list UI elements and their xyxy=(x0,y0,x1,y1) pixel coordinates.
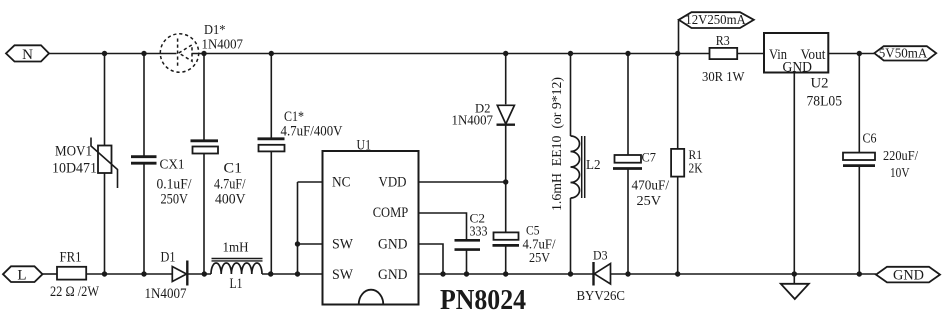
node GND output hexagon xyxy=(876,267,940,284)
svg-text:N: N xyxy=(22,47,33,63)
op-amp U1 PN8024 controller box xyxy=(323,138,419,305)
svg-text:GND: GND xyxy=(893,268,924,284)
svg-text:GND: GND xyxy=(378,267,408,283)
wire U2 GND down xyxy=(793,73,795,275)
svg-text:U1: U1 xyxy=(357,138,372,154)
wire bottom rail L to FR1 xyxy=(43,273,58,275)
svg-text:FR1: FR1 xyxy=(60,250,82,266)
svg-text:4.7uF/400V: 4.7uF/400V xyxy=(281,124,343,140)
wire bottom rail D1 to L1 xyxy=(187,273,211,275)
svg-text:NC: NC xyxy=(332,175,351,191)
svg-text:1N4007: 1N4007 xyxy=(452,112,494,127)
svg-text:1N4007: 1N4007 xyxy=(202,37,244,52)
wire bottom rail D3 to GND hexagon xyxy=(611,273,877,275)
capacitor CX1 xyxy=(131,54,192,275)
svg-text:VDD: VDD xyxy=(379,175,407,191)
svg-text:MOV1: MOV1 xyxy=(55,144,92,160)
svg-text:10D471: 10D471 xyxy=(52,161,97,177)
wire top rail left segment xyxy=(49,53,177,55)
node L input hexagon xyxy=(3,266,43,283)
ground symbol xyxy=(781,274,809,299)
svg-text:L2: L2 xyxy=(586,157,601,172)
wire SW pin stub xyxy=(298,243,323,245)
diode D2 xyxy=(452,54,516,233)
node 5V50mA output hexagon xyxy=(874,46,936,61)
inductor L2 with EE10 core xyxy=(550,54,601,275)
inductor L1 xyxy=(211,241,263,293)
node N input hexagon xyxy=(6,45,49,63)
capacitor C2 xyxy=(455,211,488,275)
wire bottom rail FR1 to D1 xyxy=(86,273,172,275)
svg-text:R3: R3 xyxy=(716,34,730,49)
regulator U2 78L05 box xyxy=(764,33,842,110)
wire NC pin stub xyxy=(298,181,323,183)
svg-text:400V: 400V xyxy=(215,192,246,208)
wire top rail middle segment xyxy=(192,53,710,55)
varistor MOV1 xyxy=(52,54,118,275)
wire top rail U2 output segment xyxy=(828,53,874,55)
svg-text:2K: 2K xyxy=(689,161,703,176)
svg-text:1.6mH EE10 (or 9*12): 1.6mH EE10 (or 9*12) xyxy=(550,77,565,211)
wire VDD pin to D2 node xyxy=(419,181,506,183)
node 12V250mA output hexagon xyxy=(679,12,754,53)
junction dots bottom rail xyxy=(102,271,862,276)
svg-text:C7: C7 xyxy=(642,150,657,165)
svg-text:GND: GND xyxy=(378,237,408,253)
junction dot SW tie xyxy=(295,241,300,246)
capacitor C6 electrolytic xyxy=(843,54,918,275)
svg-text:SW: SW xyxy=(332,237,354,253)
capacitor C1* electrolytic xyxy=(258,54,343,275)
svg-text:78L05: 78L05 xyxy=(807,94,843,110)
svg-text:PN8024: PN8024 xyxy=(440,285,526,316)
wire U1 left tie vertical (NC-SW-SW) xyxy=(297,182,299,274)
wire bottom rail U1 to D3 xyxy=(419,273,594,275)
svg-text:5V50mA: 5V50mA xyxy=(879,46,928,61)
svg-text:1N4007: 1N4007 xyxy=(145,286,187,302)
svg-text:C1: C1 xyxy=(224,161,243,177)
resistor R3 xyxy=(702,34,745,85)
wire top rail right of R3 xyxy=(737,53,764,55)
svg-text:220uF/: 220uF/ xyxy=(883,148,918,163)
svg-text:D3: D3 xyxy=(593,248,608,263)
svg-text:U2: U2 xyxy=(811,76,829,92)
resistor FR1 xyxy=(50,250,100,301)
svg-text:L1: L1 xyxy=(230,276,243,292)
capacitor C1 electrolytic xyxy=(191,54,247,275)
svg-text:470uF/: 470uF/ xyxy=(632,178,670,193)
svg-text:25V: 25V xyxy=(529,250,550,265)
capacitor C5 electrolytic xyxy=(493,223,556,275)
svg-text:30R 1W: 30R 1W xyxy=(702,70,745,85)
svg-text:25V: 25V xyxy=(637,193,662,208)
svg-text:C5: C5 xyxy=(526,223,540,238)
svg-text:10V: 10V xyxy=(890,165,910,180)
svg-text:333: 333 xyxy=(470,224,488,239)
svg-text:CX1: CX1 xyxy=(160,157,185,172)
svg-text:12V250mA: 12V250mA xyxy=(685,12,746,27)
svg-text:0.1uF/: 0.1uF/ xyxy=(157,177,193,193)
resistor R1 xyxy=(671,54,703,275)
capacitor C7 electrolytic xyxy=(613,54,669,275)
wire bottom rail L1 to U1 xyxy=(262,273,323,275)
svg-text:D1: D1 xyxy=(161,250,176,266)
svg-text:250V: 250V xyxy=(161,192,189,208)
diode D3 xyxy=(577,248,626,304)
svg-text:4.7uF/: 4.7uF/ xyxy=(214,177,246,193)
svg-text:SW: SW xyxy=(332,267,354,283)
diode D1 xyxy=(145,250,188,303)
junction dot VDD-D2 xyxy=(503,179,508,184)
svg-text:1mH: 1mH xyxy=(223,241,249,256)
junction dots top rail xyxy=(102,51,862,56)
svg-text:C6: C6 xyxy=(863,131,877,146)
svg-text:BYV26C: BYV26C xyxy=(577,289,626,304)
svg-text:COMP: COMP xyxy=(373,205,409,221)
wire COMP pin to C2 xyxy=(419,213,467,240)
svg-text:22 Ω /2W: 22 Ω /2W xyxy=(50,284,100,300)
svg-text:L: L xyxy=(17,267,26,283)
diode D1* optional (dashed circle) xyxy=(160,34,198,72)
wire GND pin down xyxy=(419,244,444,274)
svg-text:D1*: D1* xyxy=(204,23,226,38)
svg-text:GND: GND xyxy=(783,60,813,76)
